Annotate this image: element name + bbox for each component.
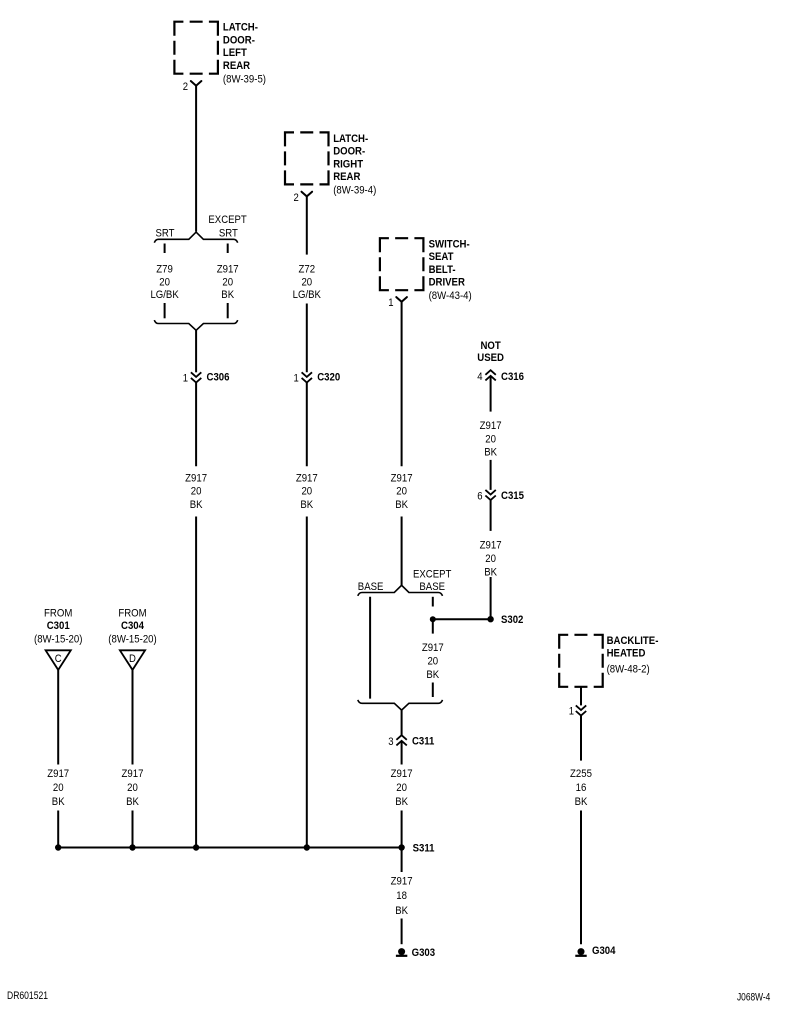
svg-text:BELT-: BELT- [429, 264, 456, 276]
svg-text:LG/BK: LG/BK [150, 289, 179, 301]
wire label Z917 20 BK (except-base branch) [422, 642, 444, 681]
svg-text:REAR: REAR [333, 171, 360, 183]
connector box BACKLITE-HEATED [559, 635, 603, 687]
wire stub Z917 upper [227, 244, 229, 254]
label LATCH-DOOR-RIGHT REAR (8W-39-4) [333, 133, 376, 197]
svg-text:3: 3 [388, 736, 393, 748]
svg-text:20: 20 [485, 553, 496, 565]
wire Z917 below C320 upper [306, 382, 308, 466]
svg-text:DOOR-: DOOR- [223, 34, 255, 46]
wire Z917 from seat-belt switch upper segment [401, 302, 403, 466]
wire label Z917 20 BK (C315-S302) [480, 540, 502, 579]
svg-text:BASE: BASE [358, 581, 384, 593]
connector C316 pin 4 [477, 370, 524, 383]
wire stub below junction [432, 619, 434, 633]
label NOT USED [477, 340, 504, 364]
svg-text:BK: BK [575, 796, 588, 808]
label LATCH-DOOR-LEFT REAR (8W-39-5) [223, 22, 266, 86]
wire Z917 left run to splice S311 [195, 517, 197, 848]
label FROM C304 (8W-15-20) [108, 607, 157, 645]
splice brace SRT/EXCEPT-SRT top [154, 232, 237, 243]
svg-text:(8W-43-4): (8W-43-4) [429, 290, 472, 302]
svg-text:C315: C315 [501, 490, 524, 502]
svg-text:20: 20 [191, 486, 202, 498]
svg-text:HEATED: HEATED [607, 648, 646, 660]
svg-text:Z79: Z79 [156, 264, 173, 276]
node on bus at second Z917 run [304, 844, 310, 850]
svg-text:16: 16 [576, 782, 587, 794]
svg-text:(8W-48-2): (8W-48-2) [607, 663, 650, 675]
wire label Z917 20 BK (seat-belt run) [391, 472, 413, 511]
svg-text:18: 18 [396, 890, 407, 902]
wire Z917 from C-triangle [57, 670, 59, 765]
wire Z72 upper segment [306, 196, 308, 254]
svg-text:BK: BK [52, 796, 65, 808]
svg-text:Z917: Z917 [122, 768, 144, 780]
svg-text:Z917: Z917 [480, 420, 502, 432]
connector C306 pin 1 [183, 371, 230, 384]
wire C304 run to bus [132, 811, 134, 848]
svg-text:BASE: BASE [419, 581, 445, 593]
label SRT [156, 227, 175, 239]
svg-text:SRT: SRT [156, 227, 175, 239]
svg-text:BK: BK [190, 499, 203, 511]
svg-text:20: 20 [127, 782, 138, 794]
svg-text:USED: USED [477, 352, 504, 364]
svg-text:Z917: Z917 [296, 472, 318, 484]
wire Z917 18 below S311 [401, 848, 403, 873]
svg-text:1: 1 [569, 706, 574, 718]
svg-text:BK: BK [126, 796, 139, 808]
svg-text:BK: BK [300, 499, 313, 511]
svg-text:G303: G303 [412, 947, 436, 959]
pin 2 of latch-door-right-rear [294, 192, 313, 204]
splice brace BASE merge bottom [358, 700, 443, 710]
svg-text:20: 20 [159, 276, 170, 288]
splice S311 [398, 842, 434, 854]
svg-text:20: 20 [485, 433, 496, 445]
wire Z255 to ground G304 [580, 811, 582, 945]
connector C320 pin 1 [294, 371, 341, 384]
svg-text:SRT: SRT [219, 227, 238, 239]
node on bus at left Z917 run [193, 844, 199, 850]
svg-text:2: 2 [294, 192, 299, 204]
splice S302 [487, 614, 523, 626]
svg-text:(8W-15-20): (8W-15-20) [34, 634, 83, 646]
svg-text:20: 20 [427, 655, 438, 667]
junction node on EXCEPT-BASE branch [430, 616, 436, 622]
svg-text:C316: C316 [501, 371, 524, 383]
svg-text:2: 2 [183, 81, 188, 93]
svg-text:1: 1 [183, 373, 188, 385]
svg-text:D: D [129, 653, 136, 665]
wire label Z917 20 BK (second run) [296, 472, 318, 511]
label FROM C301 (8W-15-20) [34, 607, 83, 645]
connector C315 pin 6 [477, 490, 524, 503]
svg-text:(8W-15-20): (8W-15-20) [108, 634, 157, 646]
svg-text:Z917: Z917 [391, 875, 413, 887]
svg-text:Z917: Z917 [47, 768, 69, 780]
svg-text:BK: BK [484, 566, 497, 578]
svg-text:20: 20 [396, 782, 407, 794]
wire stub Z79 lower [164, 303, 166, 318]
svg-text:BK: BK [221, 289, 234, 301]
ground bus wire [58, 847, 401, 849]
wire Z255 upper [580, 716, 582, 761]
connector C311 pin 3 [388, 735, 434, 748]
wire to ground G303 [401, 919, 403, 945]
svg-text:FROM: FROM [44, 607, 72, 619]
svg-text:20: 20 [222, 276, 233, 288]
label BASE [358, 581, 384, 593]
wire Z917 below C316 [490, 376, 492, 412]
svg-text:1: 1 [294, 373, 299, 385]
splice brace BASE/EXCEPT-BASE top [358, 585, 443, 596]
wire stub except-base lower [432, 683, 434, 698]
svg-text:J068W-4: J068W-4 [737, 991, 770, 1003]
wire label Z255 16 BK [570, 768, 592, 808]
svg-text:Z917: Z917 [422, 642, 444, 654]
sheet code J068W-4 [737, 991, 770, 1003]
connector box LATCH-DOOR-RIGHT REAR [285, 132, 329, 184]
label EXCEPT SRT [208, 214, 246, 239]
svg-text:(8W-39-4): (8W-39-4) [333, 184, 376, 196]
svg-text:S302: S302 [501, 614, 523, 626]
wire label Z917 20 BK (C316-C315) [480, 420, 502, 459]
svg-text:BK: BK [395, 796, 408, 808]
svg-text:1: 1 [388, 297, 393, 309]
connector box SWITCH-SEAT BELT-DRIVER [380, 238, 424, 290]
svg-text:C306: C306 [207, 371, 230, 383]
wire label Z917 18 BK [391, 875, 413, 917]
svg-text:DOOR-: DOOR- [333, 146, 365, 158]
svg-text:BK: BK [426, 669, 439, 681]
svg-text:Z917: Z917 [480, 540, 502, 552]
svg-text:C320: C320 [317, 371, 340, 383]
wire stub Z79 upper [164, 244, 166, 254]
ground G303 [396, 947, 435, 959]
svg-text:FROM: FROM [118, 607, 146, 619]
wire from latch-left-rear pin 2 to SRT brace [195, 86, 197, 232]
wire Z917 C311 run to S311 [401, 811, 403, 848]
svg-text:SWITCH-: SWITCH- [429, 239, 470, 251]
wire Z917 from D-triangle [132, 670, 134, 765]
svg-text:G304: G304 [592, 945, 616, 957]
wire Z917 second run to splice S311 [306, 517, 308, 848]
svg-text:20: 20 [396, 486, 407, 498]
svg-text:C301: C301 [47, 620, 70, 632]
svg-text:RIGHT: RIGHT [333, 158, 363, 170]
svg-text:Z917: Z917 [391, 768, 413, 780]
svg-text:20: 20 [301, 276, 312, 288]
sheet number DR601521 [7, 990, 48, 1002]
ground G304 [575, 945, 616, 957]
svg-text:SEAT: SEAT [429, 251, 454, 263]
wire label Z917 20 BK (C311 run) [391, 768, 413, 808]
svg-text:20: 20 [301, 486, 312, 498]
wire Z917 above C315 [490, 460, 492, 490]
pin 1 of seat-belt-switch [388, 297, 407, 309]
svg-text:BACKLITE-: BACKLITE- [607, 635, 659, 647]
svg-text:NOT: NOT [480, 340, 500, 352]
wire C301 run to bus [57, 811, 59, 848]
label EXCEPT BASE [413, 569, 451, 594]
wire stub Z917 lower [227, 303, 229, 318]
svg-text:Z917: Z917 [185, 472, 207, 484]
wire label Z917 20 BK (SRT branch) [217, 264, 239, 302]
svg-text:DRIVER: DRIVER [429, 277, 465, 289]
splice brace SRT merge bottom [154, 320, 237, 330]
wire Z917 below C311 [401, 741, 403, 765]
svg-text:LATCH-: LATCH- [223, 22, 258, 34]
label SWITCH-SEAT BELT-DRIVER (8W-43-4) [429, 239, 472, 303]
svg-text:20: 20 [53, 782, 64, 794]
off-page connector C from C301 [46, 650, 71, 670]
svg-text:DR601521: DR601521 [7, 990, 48, 1002]
connector box LATCH-DOOR-LEFT REAR [174, 22, 218, 74]
svg-text:BK: BK [484, 447, 497, 459]
svg-text:4: 4 [477, 371, 482, 383]
svg-text:C311: C311 [412, 735, 434, 747]
wire Z917 down to splice S302 [490, 577, 492, 619]
wire from backlite box to connector [580, 687, 582, 706]
svg-text:Z917: Z917 [391, 472, 413, 484]
wire junction to S302 horizontal [433, 618, 488, 620]
svg-text:REAR: REAR [223, 60, 250, 72]
wire from SRT merge to C306 [195, 330, 197, 372]
svg-text:BK: BK [395, 905, 408, 917]
svg-text:C: C [55, 653, 62, 665]
svg-text:6: 6 [477, 491, 482, 503]
svg-text:EXCEPT: EXCEPT [413, 569, 451, 581]
svg-text:(8W-39-5): (8W-39-5) [223, 74, 266, 86]
wire label Z917 20 BK (left run) [185, 472, 207, 511]
wire label Z72 20 LG/BK [293, 264, 322, 302]
svg-text:LG/BK: LG/BK [293, 289, 322, 301]
wire from BASE merge to C311 [401, 710, 403, 735]
svg-text:Z255: Z255 [570, 768, 592, 780]
wire Z917 seat-belt run to BASE brace [401, 517, 403, 586]
wire Z917 below C306 upper [195, 382, 197, 466]
svg-text:BK: BK [395, 499, 408, 511]
connector pin 1 of backlite feed [569, 705, 587, 717]
wire Z72 lower segment [306, 304, 308, 373]
svg-text:Z917: Z917 [217, 264, 239, 276]
svg-text:C304: C304 [121, 620, 145, 632]
node on bus at C301 run [55, 844, 61, 850]
wire BASE branch (left) [369, 597, 371, 699]
wire label Z917 20 BK (C301 run) [47, 768, 69, 808]
svg-text:LEFT: LEFT [223, 47, 247, 59]
off-page connector D from C304 [120, 650, 145, 670]
wire Z917 below C315 [490, 500, 492, 531]
label BACKLITE-HEATED (8W-48-2) [607, 635, 659, 675]
svg-text:S311: S311 [413, 842, 435, 854]
svg-text:EXCEPT: EXCEPT [208, 214, 246, 226]
wire stub EXCEPT-BASE to junction [432, 597, 434, 607]
wire label Z79 20 LG/BK [150, 264, 179, 302]
svg-text:Z72: Z72 [299, 264, 316, 276]
wire label Z917 20 BK (C304 run) [122, 768, 144, 808]
svg-text:LATCH-: LATCH- [333, 133, 368, 145]
node on bus at C304 run [129, 844, 135, 850]
pin 2 of latch-door-left-rear [183, 81, 202, 93]
